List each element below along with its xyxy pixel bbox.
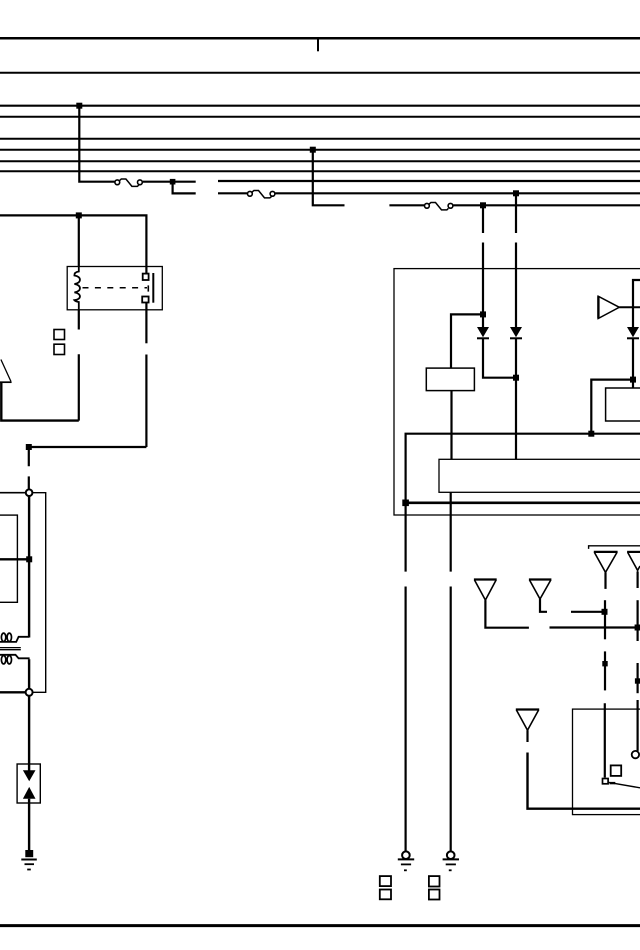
bus line 3 <box>0 105 640 107</box>
junction dot on line A <box>588 431 594 437</box>
speaker SP3 lead into switch box <box>604 703 606 777</box>
diode pack Z1 box <box>17 764 40 803</box>
wire W3 branch down segment <box>482 205 484 233</box>
speaker SP1 <box>474 580 497 601</box>
diode D1 cathode wire to bus joint <box>483 338 516 377</box>
coil output wire after connector break <box>78 354 80 420</box>
junction dot SP1 branch <box>635 625 640 631</box>
diode D2 cathode wire down to main rect <box>515 338 517 459</box>
speaker SP2 <box>529 580 552 600</box>
wire SP2 branch after break <box>571 611 605 613</box>
wire W3 to right edge <box>453 204 640 206</box>
horn symbol at left edge <box>0 360 12 383</box>
switch SW1 lever <box>608 782 640 788</box>
wire from bus 6 down to W3 <box>313 150 345 206</box>
power wire corner top right <box>633 280 640 308</box>
junction dot D1/D2 cathode joint <box>513 375 519 381</box>
transformer secondary coil <box>0 655 30 664</box>
speaker SP4 clipped at right <box>627 552 640 571</box>
coil output wire segment <box>78 310 80 330</box>
wire diode pack to ground <box>28 799 30 851</box>
stub wire left of lower terminal <box>0 691 26 693</box>
buzzer output wire to right edge <box>619 306 640 308</box>
speaker SP3 <box>594 552 618 573</box>
bus line 5 <box>0 138 640 140</box>
wire lower terminal to diode pack <box>28 696 30 771</box>
unit M1 enclosure bypass outline <box>32 493 45 693</box>
speaker SP5 <box>516 710 539 731</box>
switch SW1 common terminal ring <box>632 751 639 758</box>
connector label box G3 upper <box>429 876 440 886</box>
speaker SP4 lead dash segment <box>636 663 638 693</box>
switch return wire to unit M1 <box>29 447 147 466</box>
junction dot D3 branch <box>630 377 636 383</box>
speaker SP4 lead segment <box>636 571 638 588</box>
junction dot bus6/branch <box>310 147 316 153</box>
wire W3 branch after break into U1 <box>482 243 484 328</box>
unit M1 main vertical lower <box>28 659 30 689</box>
relay switch lead inside box <box>145 267 147 310</box>
bus line 2 <box>0 72 640 74</box>
wire SB1 output down to main rect <box>450 391 452 460</box>
speaker SP5 lead segment <box>526 730 528 742</box>
wire W1 right section to edge <box>218 180 640 182</box>
fuse F1 <box>115 179 142 186</box>
connector label box G3 lower <box>429 890 440 900</box>
ground ring G2 <box>402 851 410 859</box>
bus line 1 <box>0 37 640 40</box>
ground G2 <box>398 859 414 870</box>
junction dot at unit feed corner <box>26 444 32 450</box>
buzzer BZ1 <box>598 296 619 318</box>
connector label box G2 upper <box>380 876 391 886</box>
wire W2 left section with fuse F2 lead <box>218 192 247 194</box>
wire W2 branch down segment <box>515 193 517 233</box>
junction dot bus3/branch <box>76 103 82 109</box>
branch stub down to second feed level <box>173 182 196 194</box>
wire W3 resumed after break with fuse F3 lead <box>389 204 424 206</box>
junction dot at diode D1 anode branch <box>480 311 486 317</box>
speaker SP2 lead wire with hook <box>540 599 547 612</box>
switch SW1 label box <box>611 765 622 776</box>
bottom border line <box>0 924 640 927</box>
speaker SP3 lead dash segment <box>604 651 606 690</box>
ground ring G3 <box>447 851 455 859</box>
diode pack Z1 upper diode <box>23 770 36 781</box>
ground G1 <box>21 860 37 870</box>
terminal ring upper of unit M1 <box>26 489 33 496</box>
diode pack Z1 lower diode <box>23 787 36 799</box>
ground wire 2 lower segment <box>450 587 452 852</box>
switch box SW1 <box>573 709 640 815</box>
diode D1 <box>477 327 489 338</box>
stub wire left of upper terminal <box>0 492 26 494</box>
junction dot SP2 branch <box>602 609 608 615</box>
sub box SB1 <box>426 368 474 391</box>
splice square dot SP4 lead <box>635 678 640 683</box>
junction dot W3 at x483 <box>480 202 486 208</box>
transformer core <box>0 648 21 650</box>
splice square dot SP3 lead <box>602 661 607 666</box>
speaker SP3 lead after break <box>604 600 606 639</box>
relay K1 actuation dashed link <box>83 285 149 291</box>
ground wire 1 lower segment <box>405 587 407 852</box>
branch wire to sub box SB1 <box>451 314 483 368</box>
relay K1 armature <box>152 273 154 303</box>
switch SW1 pin contact <box>603 779 609 784</box>
wire down to diode D3 <box>632 307 634 327</box>
bus line 8 <box>0 170 640 172</box>
main rectangle MR inside U1 <box>439 459 640 492</box>
ground wire 2 upper segment <box>450 492 452 571</box>
wire SP1 branch after break to right edge <box>550 626 640 628</box>
diode D3 cathode wire to sub box SB2 <box>632 338 634 388</box>
connector label box G2 lower <box>380 890 391 900</box>
stub wire mid left <box>0 558 29 560</box>
feed wire to relay K1 <box>0 215 146 266</box>
node tick on bus 1 <box>317 38 319 51</box>
ground wire 1 upper segment <box>405 503 407 572</box>
relay K1 coil <box>74 267 80 310</box>
unit M1 inner box <box>0 515 17 602</box>
diode D3 <box>627 327 639 338</box>
fuse F3 <box>425 203 453 210</box>
relay K1 upper contact <box>143 274 149 280</box>
wire from bus 3 down to fuse F1 <box>79 106 114 182</box>
connector label box upper <box>54 330 65 340</box>
connector label box lower <box>54 344 65 354</box>
bus line 6 <box>0 149 640 151</box>
speaker SP4 lead after break <box>636 600 638 641</box>
unit M1 main vertical upper <box>28 496 30 638</box>
transformer primary coil <box>0 633 29 642</box>
junction dot feed/coil branch <box>76 212 82 218</box>
wire fuse F1 to junction and connector break <box>143 181 196 183</box>
fuse F2 <box>248 191 275 198</box>
relay K1 box <box>67 267 162 310</box>
horn lead wire down and right to coil return <box>1 383 79 421</box>
diode D2 <box>510 327 522 338</box>
terminal ring lower of unit M1 <box>26 689 33 696</box>
wire coil branch down <box>78 215 80 267</box>
switch output wire after connector break <box>145 355 147 448</box>
relay K1 lower contact <box>142 297 148 303</box>
junction dot W2 at x516 <box>513 190 519 196</box>
line A internal bus <box>406 434 640 503</box>
speaker SP5 lead after break to right edge <box>528 753 640 809</box>
junction dot mid stub <box>26 556 32 562</box>
speaker SP3 lead segment <box>604 572 606 589</box>
speaker SP1 lead wire <box>485 600 529 628</box>
unit feed wire after connector break <box>28 476 30 489</box>
ground terminal square G1 <box>25 850 33 857</box>
junction square dot on line B <box>402 500 409 507</box>
wire W2 to right edge <box>275 192 640 194</box>
junction dot at fuse output <box>170 179 176 185</box>
sub box SB2 <box>606 388 640 421</box>
ground G3 <box>443 859 459 870</box>
bus line 7 <box>0 160 640 162</box>
speaker SP4 lead into switch box <box>636 700 638 751</box>
switch output wire segment <box>145 310 147 344</box>
tweeter unit box edge clipped at right <box>589 546 640 549</box>
control unit U1 box <box>394 269 640 515</box>
bus line 4 <box>0 116 640 118</box>
branch wire from D3 down to line A <box>591 380 633 434</box>
line B internal bus <box>406 501 640 504</box>
wire W2 branch after break into U1 <box>515 243 517 328</box>
